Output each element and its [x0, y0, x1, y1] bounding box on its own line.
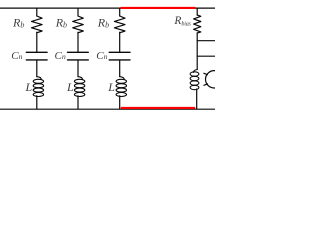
wire tap lower [197, 55, 215, 57]
transistor lead upper [204, 73, 208, 74]
wire branch1 top [36, 8, 38, 16]
svg-text:Cn: Cn [11, 50, 22, 62]
wire bottom rail [0, 108, 215, 110]
capacitor C2 [68, 52, 89, 60]
transistor circle Q1 [206, 71, 223, 88]
wire branch2 below cap [77, 61, 79, 77]
red highlight bottom [121, 107, 195, 109]
wire top rail [0, 7, 215, 9]
svg-text:Cn: Cn [55, 50, 66, 62]
resistor R3 [114, 16, 125, 33]
transistor lead lower [204, 84, 208, 85]
wire bias branch bottom [196, 89, 198, 109]
inductor Lbias [190, 70, 199, 90]
wire branch2 mid [77, 32, 79, 52]
resistor R1 [32, 16, 43, 33]
svg-text:L: L [25, 80, 33, 94]
wire branch3 mid [119, 32, 121, 52]
inductor L2 [74, 77, 84, 97]
svg-text:L: L [66, 80, 74, 94]
capacitor C3 [109, 52, 130, 60]
wire branch2 top [77, 8, 79, 16]
wire branch3 below cap [119, 61, 121, 77]
svg-text:Cn: Cn [96, 50, 107, 62]
svg-text:L: L [107, 80, 115, 94]
wire bias branch mid [196, 33, 198, 70]
wire branch3 bottom [119, 96, 121, 109]
resistor Rbias [194, 15, 201, 33]
wire branch1 mid [36, 32, 38, 52]
wire branch3 top [119, 8, 121, 16]
wire bias branch top [196, 8, 198, 15]
red highlight top [120, 7, 195, 9]
resistor R2 [73, 16, 84, 33]
inductor L1 [33, 77, 43, 97]
inductor L3 [116, 77, 126, 97]
wire branch1 bottom [36, 96, 38, 109]
wire branch2 bottom [77, 96, 79, 109]
wire tap upper [197, 40, 215, 42]
capacitor C1 [26, 52, 47, 60]
wire branch1 below cap [36, 61, 38, 77]
